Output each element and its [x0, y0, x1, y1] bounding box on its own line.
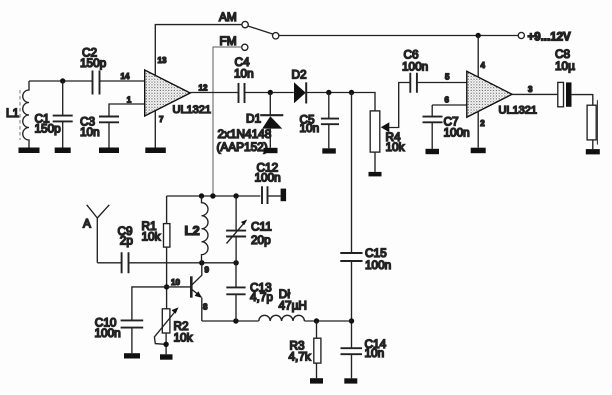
wire D2 to R4	[306, 93, 375, 111]
svg-text:13: 13	[158, 56, 167, 65]
inductor Dl choke	[259, 287, 307, 321]
wire C8 to load	[572, 95, 593, 106]
ground R2	[160, 354, 173, 359]
transistor Q1	[167, 263, 210, 321]
svg-text:+9...12V: +9...12V	[528, 31, 571, 43]
svg-text:10: 10	[171, 278, 180, 287]
ground pin2	[471, 148, 486, 154]
wire pin13 to AM	[155, 25, 242, 76]
wire pin12 out	[190, 92, 238, 94]
svg-text:12: 12	[199, 83, 208, 92]
svg-text:D1: D1	[246, 111, 261, 125]
svg-text:A: A	[83, 216, 91, 230]
potentiometer R4	[370, 83, 410, 172]
node C5 junction	[326, 90, 331, 95]
node input junction	[60, 78, 65, 83]
capacitor C15	[340, 246, 391, 272]
ground C3	[99, 148, 119, 154]
node L2 top	[199, 193, 204, 198]
svg-text:FM: FM	[220, 34, 237, 48]
svg-text:L2: L2	[185, 223, 200, 238]
svg-text:L1: L1	[6, 106, 19, 120]
svg-text:UL1321: UL1321	[173, 104, 212, 116]
node C11 bottom	[233, 260, 238, 265]
diode D1	[217, 93, 284, 155]
svg-text:2: 2	[480, 119, 485, 128]
wire oscillator rail	[167, 195, 261, 197]
svg-text:4,7p: 4,7p	[250, 290, 273, 304]
wire pin2 down	[477, 112, 479, 148]
svg-text:100n: 100n	[255, 171, 281, 185]
svg-text:10n: 10n	[300, 121, 320, 135]
svg-text:14: 14	[121, 72, 130, 81]
switch lever	[248, 26, 273, 34]
switch FM contact	[220, 34, 248, 50]
wire C6 to pin5	[417, 82, 467, 84]
ground C14	[344, 378, 357, 383]
wire switch to supply	[279, 35, 518, 37]
node base junction	[164, 284, 169, 289]
svg-text:100n: 100n	[402, 59, 428, 73]
svg-text:1: 1	[127, 95, 132, 104]
wire pin3 out	[512, 93, 558, 95]
node FM line	[210, 193, 215, 198]
capacitor C9	[118, 224, 134, 273]
capacitor C5	[300, 93, 340, 149]
svg-text:2p: 2p	[120, 234, 134, 248]
variable capacitor C11	[226, 196, 272, 263]
svg-text:7: 7	[159, 115, 164, 124]
trimmer R2	[154, 307, 192, 354]
wire pin6	[432, 104, 466, 106]
ground C1	[55, 148, 71, 154]
capacitor C7	[423, 105, 470, 149]
ground C10	[124, 353, 140, 358]
ground R4	[369, 172, 382, 177]
svg-text:10k: 10k	[142, 229, 161, 243]
capacitor C1	[35, 81, 73, 148]
node D1 junction	[268, 90, 273, 95]
capacitor C4	[234, 55, 254, 103]
wire antenna to C9	[97, 262, 121, 264]
switch common contact	[273, 33, 279, 39]
svg-text:D2: D2	[292, 67, 307, 81]
wire FM to oscillator	[213, 47, 241, 196]
wire C9 to collector node	[129, 262, 236, 264]
resistor load output	[587, 100, 597, 149]
wire C4 to D2	[245, 92, 294, 94]
node C13 bottom	[233, 318, 238, 323]
node supply junction	[476, 33, 481, 38]
supply terminal +9...12V	[518, 31, 571, 43]
svg-text:10n: 10n	[365, 346, 385, 360]
capacitor C2	[80, 46, 107, 95]
ground C5	[322, 148, 336, 153]
node C15 junction	[349, 90, 354, 95]
svg-text:5: 5	[445, 73, 450, 82]
svg-text:9: 9	[205, 266, 210, 275]
ground C7	[426, 149, 440, 154]
wire emitter line	[202, 320, 259, 322]
svg-text:8: 8	[203, 302, 208, 311]
svg-text:10µ: 10µ	[555, 59, 575, 73]
ground load	[586, 149, 600, 154]
node R3 top	[314, 318, 319, 323]
op-amp U1b UL1321	[467, 61, 537, 128]
capacitor C13	[226, 263, 273, 321]
ground R3	[310, 378, 323, 383]
diode D2	[292, 67, 307, 103]
svg-text:100n: 100n	[95, 326, 121, 340]
op-amp U1a UL1321	[145, 56, 211, 124]
svg-text:10n: 10n	[80, 125, 100, 139]
switch AM contact	[219, 10, 248, 28]
capacitor C10	[95, 287, 167, 353]
node collector	[199, 260, 204, 265]
svg-text:2x1N4148: 2x1N4148	[218, 127, 272, 141]
wire pin7 down	[154, 111, 156, 148]
ground D1	[264, 148, 278, 153]
svg-text:100n: 100n	[444, 126, 470, 140]
wire input top	[29, 80, 92, 82]
resistor R1	[142, 196, 170, 309]
capacitor C14	[341, 337, 387, 378]
capacitor C12	[255, 161, 281, 204]
ground C12	[281, 189, 287, 202]
svg-text:150p: 150p	[35, 122, 62, 136]
wire choke to C14 line	[304, 320, 351, 322]
svg-text:47µH: 47µH	[279, 299, 307, 313]
node C11 top	[233, 193, 238, 198]
svg-text:150p: 150p	[80, 56, 107, 70]
capacitor C3	[80, 104, 145, 148]
svg-text:100n: 100n	[365, 258, 391, 272]
svg-text:10n: 10n	[234, 67, 254, 81]
svg-text:C11: C11	[251, 219, 272, 233]
antenna A	[83, 205, 109, 263]
wire C15 to emitter node	[351, 261, 353, 348]
svg-text:4: 4	[481, 61, 486, 70]
inductor L2	[185, 196, 209, 263]
svg-text:10k: 10k	[174, 331, 193, 345]
ground L1	[19, 148, 40, 154]
wire supply rail down through C15	[351, 93, 353, 253]
svg-text:6: 6	[445, 95, 450, 104]
svg-text:3: 3	[528, 85, 533, 94]
svg-text:(AAP152): (AAP152)	[217, 140, 268, 154]
capacitor C6	[402, 48, 428, 93]
resistor R3	[289, 321, 321, 378]
svg-text:AM: AM	[219, 10, 237, 24]
capacitor C8 electrolytic	[555, 47, 575, 107]
svg-text:10k: 10k	[386, 140, 405, 154]
wire C2 to pin14	[100, 80, 145, 82]
node emitter line junction	[349, 318, 354, 323]
svg-text:UL1321: UL1321	[499, 104, 538, 116]
svg-text:4,7k: 4,7k	[289, 350, 311, 364]
wire pin4 to supply	[477, 36, 479, 78]
inductor L1	[6, 81, 29, 148]
ground pin7	[145, 148, 166, 154]
svg-text:20p: 20p	[251, 233, 271, 247]
